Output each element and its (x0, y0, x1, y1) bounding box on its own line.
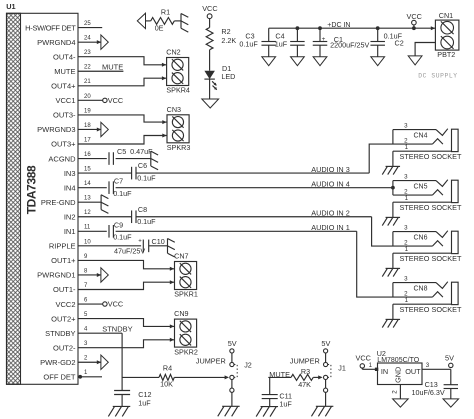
svg-text:VCC: VCC (108, 299, 123, 308)
svg-text:PWR-GD2: PWR-GD2 (40, 358, 75, 367)
svg-text:C5 0.47uF: C5 0.47uF (117, 147, 153, 156)
svg-text:CN7: CN7 (174, 252, 188, 261)
svg-text:14: 14 (84, 181, 91, 187)
svg-text:PWRGND3: PWRGND3 (37, 125, 75, 134)
svg-text:+DC IN: +DC IN (327, 22, 350, 29)
svg-text:3: 3 (404, 122, 408, 129)
svg-text:OUT1+: OUT1+ (51, 256, 76, 265)
svg-text:OUT3-: OUT3- (53, 111, 76, 120)
svg-text:STNDBY: STNDBY (45, 329, 75, 338)
svg-text:2200uF/25V: 2200uF/25V (330, 41, 369, 50)
svg-text:25: 25 (84, 21, 91, 27)
svg-text:R4: R4 (163, 363, 172, 372)
svg-text:VCC: VCC (202, 4, 217, 13)
svg-text:12: 12 (84, 210, 91, 216)
svg-text:C7: C7 (114, 177, 123, 186)
svg-text:PBT2: PBT2 (437, 50, 455, 59)
svg-text:1uF: 1uF (279, 400, 292, 409)
svg-text:LED: LED (221, 72, 235, 81)
svg-text:LM7805C/TO: LM7805C/TO (377, 357, 419, 364)
svg-text:STEREO SOCKET: STEREO SOCKET (399, 152, 462, 161)
svg-text:TDA7388: TDA7388 (24, 165, 38, 214)
svg-text:OUT3+: OUT3+ (51, 140, 76, 149)
svg-text:10uF/6.3V: 10uF/6.3V (412, 388, 445, 397)
svg-text:OUT4+: OUT4+ (51, 82, 76, 91)
svg-text:1uF: 1uF (275, 40, 288, 49)
svg-text:47uF/25V: 47uF/25V (114, 246, 145, 255)
svg-text:22: 22 (84, 65, 91, 71)
svg-text:CN4: CN4 (413, 133, 427, 140)
svg-text:SPKR3: SPKR3 (167, 143, 191, 152)
svg-text:21: 21 (84, 79, 91, 85)
svg-text:1uF: 1uF (138, 398, 151, 407)
svg-text:PWRGND4: PWRGND4 (37, 38, 75, 47)
svg-text:STEREO SOCKET: STEREO SOCKET (399, 305, 462, 314)
svg-text:CN8: CN8 (413, 286, 427, 293)
svg-text:1: 1 (405, 144, 409, 151)
svg-text:10: 10 (84, 239, 91, 245)
svg-text:MUTE: MUTE (269, 370, 290, 379)
svg-text:1: 1 (405, 195, 409, 202)
svg-text:11: 11 (84, 225, 91, 231)
svg-text:R3: R3 (301, 367, 310, 376)
svg-text:24: 24 (84, 36, 91, 42)
svg-text:IN: IN (381, 367, 388, 376)
svg-text:VCC: VCC (355, 354, 370, 363)
svg-text:18: 18 (84, 123, 91, 129)
svg-text:AUDIO IN 4: AUDIO IN 4 (311, 180, 350, 189)
svg-text:2.2K: 2.2K (221, 36, 236, 45)
svg-text:SPKR4: SPKR4 (166, 86, 190, 95)
svg-text:ACGND: ACGND (48, 154, 76, 163)
svg-text:J2: J2 (244, 360, 252, 369)
svg-text:R1: R1 (161, 8, 170, 17)
svg-text:OUT2+: OUT2+ (51, 314, 76, 323)
svg-text:0.1uF: 0.1uF (113, 189, 132, 198)
svg-text:19: 19 (84, 108, 91, 114)
svg-text:MUTE: MUTE (102, 63, 123, 72)
svg-text:5V: 5V (445, 354, 454, 363)
svg-text:IN2: IN2 (64, 212, 76, 221)
svg-text:IN4: IN4 (64, 183, 76, 192)
svg-text:OUT: OUT (405, 367, 421, 376)
svg-text:IN1: IN1 (64, 227, 76, 236)
svg-text:C6: C6 (138, 161, 147, 170)
svg-text:STEREO SOCKET: STEREO SOCKET (399, 203, 462, 212)
svg-text:5V: 5V (228, 339, 237, 348)
svg-text:16: 16 (84, 152, 91, 158)
svg-text:5V: 5V (321, 339, 330, 348)
svg-text:C2: C2 (395, 39, 404, 48)
svg-text:CN6: CN6 (413, 235, 427, 242)
svg-text:CN3: CN3 (167, 105, 181, 114)
svg-text:U1: U1 (6, 2, 15, 11)
svg-text:13: 13 (84, 196, 91, 202)
svg-text:3: 3 (404, 275, 408, 282)
svg-text:CN9: CN9 (174, 309, 188, 318)
svg-text:0.1uF: 0.1uF (137, 173, 156, 182)
svg-text:C10: C10 (152, 237, 165, 246)
svg-text:3: 3 (426, 362, 430, 369)
svg-text:10K: 10K (160, 379, 173, 388)
svg-text:47K: 47K (298, 380, 311, 389)
svg-text:1: 1 (405, 246, 409, 253)
svg-text:IN3: IN3 (64, 169, 76, 178)
svg-text:PWRGND1: PWRGND1 (37, 271, 75, 280)
svg-text:OUT1-: OUT1- (53, 285, 76, 294)
svg-text:JUMPER: JUMPER (196, 357, 226, 366)
svg-text:0E: 0E (155, 23, 164, 32)
svg-text:AUDIO IN 1: AUDIO IN 1 (311, 223, 350, 232)
svg-text:CN5: CN5 (413, 184, 427, 191)
svg-text:MUTE: MUTE (54, 67, 75, 76)
svg-text:C9: C9 (114, 220, 123, 229)
svg-text:20: 20 (84, 94, 91, 100)
svg-text:RIPPLE: RIPPLE (49, 242, 76, 251)
svg-text:J1: J1 (338, 364, 346, 373)
svg-text:VCC: VCC (108, 96, 123, 105)
svg-text:17: 17 (84, 137, 91, 143)
svg-text:GND: GND (393, 367, 402, 383)
svg-text:OUT4-: OUT4- (53, 52, 76, 61)
svg-text:+: + (138, 239, 142, 245)
svg-text:3: 3 (404, 224, 408, 231)
svg-text:AUDIO IN 2: AUDIO IN 2 (311, 209, 350, 218)
svg-text:1: 1 (405, 297, 409, 304)
svg-text:JUMPER: JUMPER (290, 357, 320, 366)
svg-text:15: 15 (84, 167, 91, 173)
svg-text:1: 1 (369, 362, 373, 369)
svg-text:STNDBY: STNDBY (102, 325, 132, 334)
svg-text:CN1: CN1 (439, 11, 453, 20)
svg-text:PRE-GND: PRE-GND (41, 198, 76, 207)
svg-text:VCC1: VCC1 (55, 96, 75, 105)
svg-text:STEREO SOCKET: STEREO SOCKET (399, 254, 462, 263)
svg-text:VCC2: VCC2 (55, 300, 75, 309)
svg-text:H-SW/OFF DET: H-SW/OFF DET (25, 23, 76, 32)
svg-text:23: 23 (84, 50, 91, 56)
svg-text:0.1uF: 0.1uF (239, 40, 258, 49)
svg-text:0.1uF: 0.1uF (113, 233, 132, 242)
svg-text:AUDIO IN 3: AUDIO IN 3 (311, 165, 350, 174)
svg-text:0.1uF: 0.1uF (137, 217, 156, 226)
svg-text:OUT2-: OUT2- (53, 343, 76, 352)
svg-text:OFF DET: OFF DET (43, 373, 75, 382)
svg-text:DC SUPPLY: DC SUPPLY (418, 73, 457, 80)
svg-text:SPKR1: SPKR1 (174, 290, 198, 299)
svg-text:2: 2 (392, 390, 399, 394)
svg-text:CN2: CN2 (166, 48, 180, 57)
svg-text:R2: R2 (221, 27, 230, 36)
svg-text:SPKR2: SPKR2 (174, 347, 198, 356)
svg-text:C8: C8 (138, 205, 147, 214)
svg-text:3: 3 (404, 173, 408, 180)
svg-text:+: + (322, 36, 326, 43)
